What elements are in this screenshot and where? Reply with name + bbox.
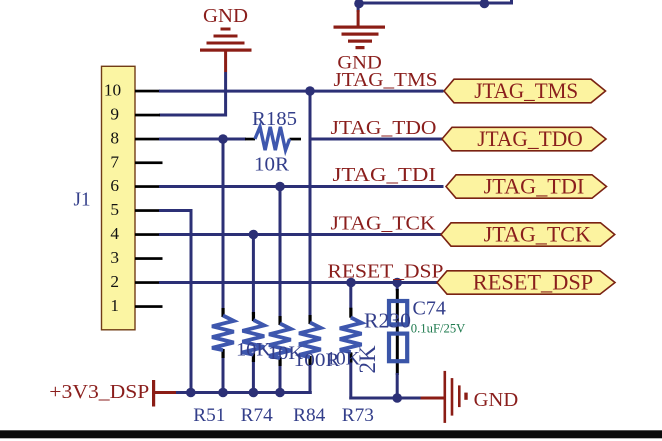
- svg-text:JTAG_TMS: JTAG_TMS: [334, 69, 438, 91]
- resistor R230 pins: [278, 316, 281, 366]
- wire top horizontal net GND: [358, 0, 513, 5]
- junction dot TMS row: [305, 86, 315, 96]
- junction dot RESET row right: [392, 278, 402, 288]
- svg-text:JTAG_TDI: JTAG_TDI: [484, 174, 585, 198]
- pin 8 stub: [135, 138, 160, 141]
- junction dot rail pin5 column: [186, 388, 196, 398]
- svg-text:JTAG_TCK: JTAG_TCK: [484, 222, 592, 246]
- svg-text:R74: R74: [241, 405, 274, 426]
- svg-text:2K: 2K: [355, 345, 380, 374]
- capacitor C74 plate upper: [389, 301, 407, 324]
- resistor R230 column wire from TDI row: [279, 187, 282, 394]
- pin 9 stub: [135, 114, 160, 117]
- pin 5 stub: [135, 209, 160, 212]
- pin 6 stub: [135, 185, 160, 188]
- pin 7 stub: [135, 161, 163, 164]
- svg-text:JTAG_TDO: JTAG_TDO: [477, 127, 583, 151]
- wire JTAG_TDI row pin6 to port: [159, 185, 444, 188]
- resistor R74 pins: [252, 312, 255, 362]
- junction dot bottom right rail: [392, 393, 402, 403]
- svg-text:GND: GND: [203, 6, 248, 27]
- resistor R51 pins: [221, 308, 224, 358]
- ground symbol bottom right: [421, 371, 519, 423]
- svg-text:RESET_DSP: RESET_DSP: [473, 270, 593, 294]
- resistor R84 zigzag: [299, 323, 321, 358]
- resistor R51 zigzag: [212, 316, 234, 351]
- junction dot TCK row: [249, 230, 259, 240]
- wire JTAG_TDO row pin8 left segment: [159, 138, 246, 141]
- junction dot on top wire right: [480, 0, 490, 8]
- junction dot rail R230: [275, 388, 285, 398]
- pin 4 stub: [135, 233, 160, 236]
- black bottom border bar: [0, 430, 662, 438]
- svg-text:C74: C74: [413, 298, 446, 320]
- ground symbol top middle: [334, 3, 386, 74]
- resistor R74 column wire from TCK row: [252, 235, 255, 394]
- wire JTAG_TMS row pin10 to port: [159, 90, 444, 93]
- resistor R51 column wire from TDO row: [222, 139, 225, 393]
- svg-text:1: 1: [110, 296, 119, 315]
- ground symbol top left (inverted, for pin 9): [200, 6, 252, 72]
- resistor R185 zigzag: [255, 127, 290, 150]
- resistor R73 zigzag: [340, 318, 362, 353]
- junction dot rail R51: [218, 388, 228, 398]
- svg-text:+3V3_DSP: +3V3_DSP: [49, 382, 149, 403]
- resistor R84 pins: [308, 315, 311, 365]
- wire JTAG_TDO row right segment to port: [309, 138, 444, 141]
- junction dot TDI row: [275, 182, 285, 192]
- wire JTAG_TCK row pin4 to port: [159, 233, 444, 236]
- svg-text:9: 9: [110, 105, 119, 124]
- svg-text:JTAG_TDO: JTAG_TDO: [331, 117, 437, 139]
- port JTAG_TDO: [442, 127, 606, 151]
- pin 3 stub: [135, 257, 163, 260]
- wire +3V3 bottom rail: [176, 391, 312, 394]
- resistor R73 column wire from RESET row: [349, 283, 421, 400]
- svg-text:R51: R51: [193, 405, 225, 426]
- pin 2 stub: [135, 281, 160, 284]
- port JTAG_TDI: [446, 174, 607, 198]
- resistor R73 pins: [349, 308, 352, 363]
- svg-text:JTAG_TMS: JTAG_TMS: [474, 79, 578, 103]
- resistor R74 zigzag: [242, 320, 264, 355]
- svg-text:JTAG_TCK: JTAG_TCK: [331, 213, 436, 235]
- svg-text:0.1uF/25V: 0.1uF/25V: [411, 320, 466, 335]
- svg-text:10R: 10R: [254, 154, 290, 176]
- wire pin9 to ground: [159, 72, 227, 117]
- resistor R84 column wire from TMS row: [309, 91, 312, 394]
- svg-text:J1: J1: [74, 189, 91, 211]
- port JTAG_TMS: [444, 79, 606, 103]
- svg-text:8: 8: [110, 129, 119, 148]
- svg-text:10: 10: [104, 81, 121, 100]
- pin 10 stub: [135, 90, 160, 93]
- pin 1 stub: [135, 305, 163, 308]
- svg-text:2: 2: [110, 272, 119, 291]
- resistor R185 pins: [245, 138, 301, 141]
- svg-text:R185: R185: [252, 108, 297, 130]
- capacitor C74 pin wire: [396, 283, 399, 399]
- port RESET_DSP: [437, 270, 615, 294]
- svg-text:R73: R73: [342, 405, 374, 426]
- svg-text:7: 7: [110, 152, 119, 171]
- junction dot rail R74: [249, 388, 259, 398]
- svg-text:6: 6: [110, 176, 119, 195]
- svg-text:R230: R230: [364, 309, 411, 333]
- connector J1 body: [102, 66, 136, 330]
- svg-text:JTAG_TDI: JTAG_TDI: [333, 164, 437, 186]
- svg-text:RESET_DSP: RESET_DSP: [328, 261, 444, 283]
- power symbol +3V3_DSP: [49, 380, 177, 407]
- wire pin5 to +3V3 rail: [159, 209, 193, 393]
- svg-text:4: 4: [110, 224, 119, 243]
- junction dot TDO row: [218, 134, 228, 144]
- svg-text:GND: GND: [474, 390, 519, 411]
- svg-text:3: 3: [110, 248, 119, 267]
- wire RESET_DSP row pin2 to port: [159, 281, 438, 284]
- resistor R230 zigzag: [269, 324, 291, 359]
- junction dot RESET row left: [346, 278, 356, 288]
- svg-text:5: 5: [110, 200, 119, 219]
- port JTAG_TCK: [441, 222, 615, 246]
- junction dot on top wire left: [354, 0, 364, 8]
- svg-text:R84: R84: [293, 405, 326, 426]
- capacitor C74 plate lower: [389, 334, 407, 362]
- svg-text:10K: 10K: [236, 340, 271, 361]
